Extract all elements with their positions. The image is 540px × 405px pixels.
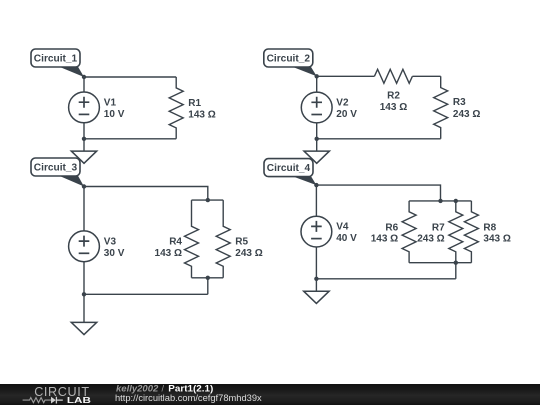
svg-text:10 V: 10 V (104, 109, 125, 120)
svg-text:Circuit_1: Circuit_1 (34, 54, 78, 65)
svg-text:143 Ω: 143 Ω (155, 248, 182, 259)
svg-text:30 V: 30 V (104, 248, 125, 259)
svg-text:243 Ω: 243 Ω (235, 248, 262, 259)
svg-text:143 Ω: 143 Ω (380, 102, 407, 113)
svg-text:Circuit_3: Circuit_3 (34, 163, 78, 174)
svg-text:R6: R6 (385, 223, 398, 234)
svg-text:V4: V4 (336, 222, 349, 233)
svg-text:kelly2002: kelly2002 (116, 384, 158, 394)
svg-text:R5: R5 (235, 236, 248, 247)
svg-text:R1: R1 (188, 98, 201, 109)
svg-text:Part1(2.1): Part1(2.1) (168, 384, 213, 394)
svg-text:R7: R7 (432, 223, 445, 234)
svg-text:243 Ω: 243 Ω (453, 109, 480, 120)
svg-text:40 V: 40 V (336, 233, 357, 244)
svg-text:143 Ω: 143 Ω (371, 234, 398, 245)
svg-text:R2: R2 (387, 91, 400, 102)
svg-text:Circuit_2: Circuit_2 (267, 54, 311, 65)
svg-text:R4: R4 (169, 236, 182, 247)
svg-text:V1: V1 (104, 98, 117, 109)
svg-text:143 Ω: 143 Ω (188, 110, 215, 121)
svg-text:20 V: 20 V (336, 109, 357, 120)
svg-text:343 Ω: 343 Ω (483, 234, 510, 245)
svg-text:R8: R8 (483, 223, 496, 234)
svg-text:http://circuitlab.com/cefgf78m: http://circuitlab.com/cefgf78mhd39x (115, 393, 262, 403)
svg-text:R3: R3 (453, 97, 466, 108)
svg-text:V3: V3 (104, 236, 117, 247)
svg-text:V2: V2 (336, 98, 349, 109)
svg-text:Circuit_4: Circuit_4 (267, 163, 311, 174)
svg-text:243 Ω: 243 Ω (417, 234, 444, 245)
svg-text:LAB: LAB (67, 396, 91, 405)
